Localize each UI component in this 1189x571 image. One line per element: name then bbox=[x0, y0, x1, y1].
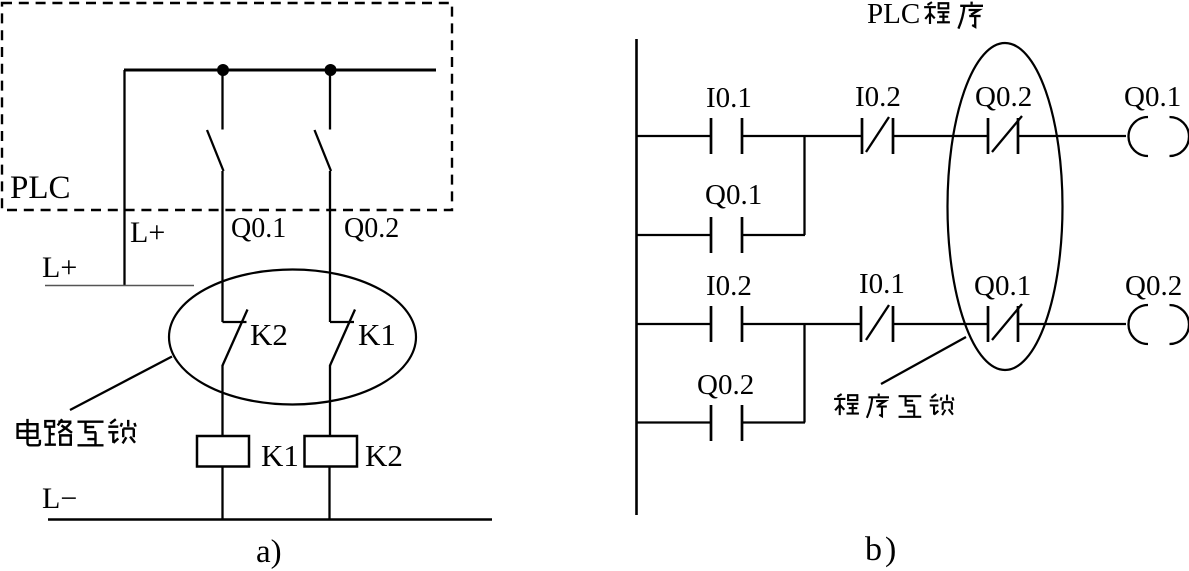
contact Q0.1 seal-in (branch 1) bbox=[711, 217, 742, 253]
coil K2 bbox=[305, 436, 358, 467]
wire: rung 1 segment 2 bbox=[742, 135, 862, 137]
svg-text:PLC: PLC bbox=[10, 170, 71, 206]
contact I0.2 NC (rung 1) bbox=[862, 117, 893, 154]
svg-text:L−: L− bbox=[42, 482, 77, 515]
label: program interlock (cheng xu hu suo) bbox=[834, 394, 953, 418]
ellipse: program interlock highlight bbox=[948, 43, 1063, 370]
svg-text:Q0.2: Q0.2 bbox=[697, 369, 754, 401]
svg-text:Q0.1: Q0.1 bbox=[705, 179, 762, 211]
node junction dot 2 bbox=[325, 64, 337, 76]
svg-text:L+: L+ bbox=[42, 251, 77, 284]
svg-text:Q0.2: Q0.2 bbox=[1125, 270, 1182, 302]
node junction dot 1 bbox=[217, 64, 229, 76]
coil Q0.1 output bbox=[1129, 117, 1189, 156]
wire: rung 1 segment 4 bbox=[1018, 135, 1126, 137]
svg-text:Q0.1: Q0.1 bbox=[974, 270, 1031, 302]
coil Q0.2 output bbox=[1129, 305, 1189, 344]
wire: rung 2 segment 4 bbox=[1018, 323, 1126, 325]
svg-text:Q0.2: Q0.2 bbox=[344, 213, 399, 244]
title PLC program bbox=[867, 0, 983, 30]
wire: L+ supply rail (thin) bbox=[45, 285, 194, 287]
wire: rung 2 segment 2 bbox=[742, 323, 861, 325]
svg-text:Q0.2: Q0.2 bbox=[975, 81, 1032, 113]
wire: K2 coil to L- bbox=[328, 467, 330, 521]
wire: branch 2 horizontal bbox=[636, 421, 805, 423]
switch Q0.1 output contact bbox=[207, 70, 224, 322]
leader line to program-interlock label bbox=[881, 337, 966, 384]
svg-text:Q0.1: Q0.1 bbox=[231, 213, 286, 244]
contact Q0.2 seal-in (branch 2) bbox=[711, 405, 742, 441]
contact I0.2 (rung 2) bbox=[711, 306, 742, 342]
wire: L+ vertical feed bbox=[123, 70, 125, 285]
wire: L- bottom rail bbox=[48, 518, 492, 521]
wire: branch 1 join vertical bbox=[803, 136, 805, 235]
contact I0.1 (rung 1) bbox=[711, 118, 742, 154]
PLC enclosure dashed box bbox=[2, 3, 452, 210]
svg-text:K2: K2 bbox=[250, 317, 288, 352]
contact Q0.2 NC (rung 1) bbox=[988, 116, 1022, 154]
wire: rung 1 segment 1 bbox=[636, 135, 711, 137]
svg-text:I0.2: I0.2 bbox=[706, 270, 752, 302]
svg-text:K2: K2 bbox=[365, 438, 403, 473]
svg-text:I0.2: I0.2 bbox=[855, 81, 901, 113]
contact I0.1 NC (rung 2) bbox=[861, 305, 893, 342]
svg-text:Q0.1: Q0.1 bbox=[1124, 81, 1181, 113]
wire: rung 2 segment 1 bbox=[636, 323, 711, 325]
contact Q0.1 NC (rung 2) bbox=[988, 304, 1022, 342]
svg-text:PLC: PLC bbox=[867, 0, 920, 30]
svg-text:K1: K1 bbox=[358, 317, 396, 352]
svg-text:L+: L+ bbox=[130, 216, 165, 249]
leader line to circuit-interlock label bbox=[70, 357, 172, 411]
wire: rung 2 segment 3 bbox=[893, 323, 988, 325]
coil K1 bbox=[197, 436, 249, 467]
contact K1 normally-closed bbox=[330, 310, 355, 437]
wire: internal top bus bbox=[124, 69, 436, 72]
wire: branch 1 horizontal bbox=[636, 234, 805, 236]
wire: K1 coil to L- bbox=[221, 467, 223, 521]
switch Q0.2 output contact bbox=[315, 70, 332, 322]
svg-text:I0.1: I0.1 bbox=[706, 82, 752, 114]
wire: left power rail bbox=[635, 39, 638, 515]
svg-text:b): b) bbox=[865, 531, 899, 568]
svg-text:a): a) bbox=[256, 534, 282, 570]
svg-text:K1: K1 bbox=[261, 438, 299, 473]
contact K2 normally-closed bbox=[223, 310, 248, 437]
wire: branch 2 join vertical bbox=[803, 324, 805, 423]
label: circuit interlock (dian lu hu suo) bbox=[18, 419, 136, 445]
wire: rung 1 segment 3 bbox=[893, 135, 988, 137]
ellipse: circuit interlock highlight bbox=[169, 270, 416, 405]
svg-text:I0.1: I0.1 bbox=[859, 268, 905, 300]
